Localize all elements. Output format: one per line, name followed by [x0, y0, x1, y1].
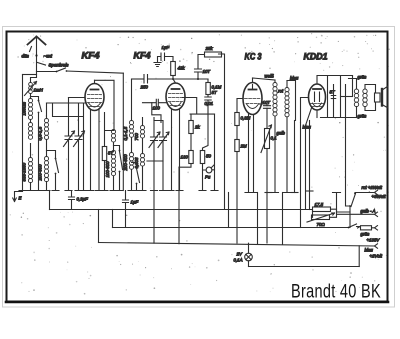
switch S gruen	[349, 224, 357, 228]
capacitor C 0,01	[205, 97, 211, 100]
terminal rot chevron	[375, 190, 378, 194]
tube V1 dome	[89, 103, 101, 107]
wire bus3 corner drop	[358, 246, 360, 267]
wire bus3 start drop	[98, 210, 100, 243]
wire rot terminal	[355, 192, 375, 194]
coil L3a	[44, 119, 48, 140]
svg-text:Pu: Pu	[205, 175, 211, 180]
tube V4 diode bars	[315, 92, 320, 102]
ground bar row mid	[101, 190, 167, 192]
bus1 ground return	[50, 209, 313, 211]
svg-text:200-600: 200-600	[123, 154, 128, 172]
wire right drop f	[294, 121, 296, 193]
resistor R 50	[200, 151, 204, 164]
antenna	[28, 37, 46, 45]
svg-text:+3Watt: +3Watt	[372, 194, 387, 199]
capacitor C 1uF	[123, 191, 129, 228]
wire V3 grid left	[237, 99, 243, 113]
resistor network R 17,5	[313, 207, 331, 212]
coil L4b	[111, 151, 115, 176]
IF transformer secondary	[285, 88, 289, 117]
tube V3 cathode bar	[249, 89, 257, 91]
svg-text:130: 130	[181, 155, 189, 160]
svg-text:100: 100	[153, 106, 161, 111]
svg-text:0,5-1,5: 0,5-1,5	[38, 126, 43, 140]
speaker driver	[375, 93, 381, 102]
wire output verticals	[328, 76, 353, 118]
wire R pair right to gelb	[330, 209, 375, 217]
wire S3 drop	[47, 151, 56, 191]
tube V3 dome	[247, 104, 259, 109]
svg-text:blau: blau	[365, 248, 374, 253]
tube V3 KC3 envelope	[243, 83, 262, 115]
wire V1 anode link	[95, 80, 115, 130]
svg-text:700: 700	[134, 133, 139, 141]
wire coil L3 stem	[46, 103, 48, 191]
wire switch drop to bus2	[349, 206, 351, 228]
wire R pair left link	[312, 210, 313, 218]
svg-text:1µF: 1µF	[162, 45, 170, 50]
R70 arrow	[307, 213, 335, 222]
wire V1 grid	[69, 97, 86, 99]
resistor network R 70 pot	[312, 215, 330, 220]
pot volume 0,1 gelb	[265, 129, 270, 149]
wire 25k left drop	[198, 55, 205, 69]
wire R5T stems	[105, 113, 114, 191]
wire antenna coil feed	[31, 72, 37, 83]
wire L5 stems	[131, 80, 133, 191]
svg-text:E: E	[19, 196, 22, 201]
tube V3 top lead	[252, 78, 254, 83]
svg-text:50: 50	[206, 154, 211, 159]
wire right drop h	[309, 121, 311, 210]
svg-text:rot +2Watt: rot +2Watt	[362, 185, 383, 190]
svg-text:2k: 2k	[194, 125, 200, 130]
wire C4 C5 bottom link	[147, 160, 163, 162]
svg-text:~ext: ~ext	[44, 54, 53, 59]
node H2/V2	[172, 78, 174, 80]
resistor R 130	[189, 151, 193, 164]
wire coil L2 stem	[30, 94, 32, 191]
resistor R 2M	[235, 140, 239, 152]
svg-text:333-1650: 333-1650	[22, 162, 27, 181]
svg-text:grün: grün	[358, 114, 367, 119]
coil L3b	[44, 157, 48, 182]
ground bars KC3 col	[199, 190, 218, 192]
switch S4	[120, 152, 123, 170]
wire V2 anode out	[183, 98, 215, 115]
bus2 HT return	[113, 227, 349, 229]
coil L6a	[140, 126, 144, 139]
capacitor C 10T	[195, 69, 202, 72]
wire mid drop c	[228, 193, 230, 228]
ground bar row left	[19, 190, 82, 192]
ground bars V3	[245, 192, 257, 194]
svg-text:1µF: 1µF	[131, 200, 139, 205]
terminal gelb chevron	[375, 212, 378, 216]
wire H2 continue	[148, 78, 208, 80]
svg-text:KDD1: KDD1	[304, 52, 328, 62]
variable capacitor C2	[74, 131, 85, 147]
wire C1 stems	[68, 98, 70, 191]
svg-text:42k: 42k	[178, 66, 186, 71]
svg-text:grün: grün	[358, 75, 367, 80]
tube V1 cathode bar	[91, 89, 99, 91]
tube V3 pins	[249, 114, 254, 192]
svg-text:KF4: KF4	[134, 51, 151, 61]
tube V3 inner stem	[252, 85, 254, 90]
variable inductor arrow	[25, 82, 37, 96]
capacitor C3 top with ground	[158, 53, 165, 62]
tube V1 KF4 envelope	[85, 84, 104, 111]
wire lamp top	[248, 243, 250, 253]
svg-text:100-300: 100-300	[105, 161, 110, 178]
tube V2 grid capacitor 100	[143, 99, 167, 106]
svg-text:grün: grün	[361, 232, 370, 237]
svg-text:250: 250	[140, 85, 149, 90]
svg-text:weiß: weiß	[265, 74, 275, 79]
capacitor C 0,2uF	[69, 191, 75, 210]
resistor R 0,3M	[235, 113, 239, 126]
variable inductor L1 body	[29, 82, 33, 93]
wire left loop vertical	[22, 75, 24, 191]
svg-text:0,01: 0,01	[205, 101, 214, 106]
svg-text:0,2µF: 0,2µF	[77, 197, 89, 202]
tube V4 dome	[313, 103, 322, 107]
wire right drop g	[300, 123, 302, 228]
wire V4 cathode drop	[306, 108, 312, 210]
wire C2 stems	[78, 103, 80, 191]
wire Pu drop	[203, 100, 215, 191]
switch S2	[39, 101, 42, 112]
coil L5a	[129, 121, 133, 138]
ground bars IFT	[272, 192, 291, 194]
wire mid drop a	[153, 191, 155, 244]
svg-text:+2Volt: +2Volt	[370, 254, 383, 259]
wire weiss link	[253, 78, 276, 80]
wire V4 grid left	[301, 98, 309, 123]
dropper resistor box gruen	[357, 227, 361, 229]
svg-text:blau: blau	[290, 76, 299, 81]
svg-text:Sperrkreis: Sperrkreis	[49, 63, 70, 68]
tube V2 dome	[170, 103, 181, 107]
tube V1 grids	[88, 95, 102, 107]
svg-text:0,1A: 0,1A	[234, 258, 243, 263]
tube V3 grid dashes	[245, 99, 261, 104]
IFT stems	[275, 80, 287, 193]
wire 25k right HT drop	[215, 54, 225, 210]
OT mid tap	[341, 96, 353, 98]
svg-text:10T: 10T	[203, 69, 211, 74]
svg-text:0,1M: 0,1M	[212, 85, 222, 90]
wire anode to C10T	[260, 104, 268, 106]
speaker cone	[383, 86, 388, 108]
wire bus2 start drop	[112, 210, 114, 228]
ground bars V2	[167, 190, 183, 192]
svg-text:0,1: 0,1	[271, 136, 278, 141]
coil L2c	[28, 158, 32, 183]
wire mid drop e	[282, 193, 284, 245]
dial lamp	[245, 253, 253, 261]
svg-text:5T: 5T	[330, 90, 335, 95]
OT secondary loop	[365, 85, 376, 111]
tube V4 cathode bar	[313, 88, 321, 90]
capacitor C250 series	[144, 75, 148, 84]
tube V4 bottom pin	[316, 110, 318, 118]
tube V2 pins	[172, 109, 180, 191]
variable capacitor C5	[158, 132, 169, 148]
node antenna junction	[35, 54, 37, 56]
output transformer primary	[354, 89, 358, 107]
wire C5 stems	[154, 121, 163, 191]
wire R2k chain	[179, 114, 191, 167]
capacitor C 5T out	[331, 96, 335, 99]
wire output stage top bus	[328, 75, 353, 77]
wire R01M stems	[207, 79, 209, 97]
antenna tap tick	[30, 47, 32, 52]
IF transformer primary	[273, 83, 277, 117]
wire V2 cathode jog	[152, 103, 161, 123]
output transformer secondary	[363, 89, 367, 107]
coil L2b	[28, 123, 32, 140]
svg-text:gelb: gelb	[277, 131, 286, 136]
svg-text:70Ω: 70Ω	[317, 222, 326, 227]
wire V4 top lead	[317, 76, 328, 85]
switch S3	[56, 159, 59, 173]
heater terminal bar	[333, 193, 351, 213]
wire left loop top	[23, 74, 37, 76]
svg-text:0,003: 0,003	[134, 157, 139, 169]
wire S4 drop	[114, 146, 120, 191]
wire R42k bottom	[172, 76, 174, 80]
pickup jack Pu	[206, 167, 212, 173]
wire H2 anode line	[132, 78, 144, 80]
wire S2 drop	[31, 97, 39, 191]
wire H1 drop	[122, 73, 124, 190]
switch S5	[137, 169, 140, 183]
resistor R 42k	[171, 62, 176, 76]
ground bars V1	[80, 190, 103, 192]
svg-text:2M: 2M	[240, 144, 247, 149]
svg-text:Brandt 40 BK: Brandt 40 BK	[291, 282, 381, 303]
svg-text:1mH: 1mH	[34, 88, 44, 93]
ground chassis C3	[154, 63, 161, 67]
switch S rot	[351, 194, 356, 207]
wire lamp bottom	[248, 261, 250, 267]
tube V1 cathode loop	[47, 103, 87, 191]
svg-text:1650m: 1650m	[22, 102, 27, 116]
svg-text:KC 3: KC 3	[245, 52, 262, 62]
svg-text:gelb - A: gelb - A	[361, 209, 376, 214]
tube V2 grids	[169, 94, 183, 106]
svg-text:KF4: KF4	[82, 51, 100, 61]
tube V1 top lead	[94, 80, 96, 83]
svg-text:200-600: 200-600	[38, 164, 43, 182]
tube V2 top lead	[173, 79, 176, 83]
svg-text:17,5: 17,5	[315, 202, 324, 207]
wire L6 stems	[142, 118, 144, 191]
speaker magnet bar	[381, 89, 383, 106]
wire bus1 start drop	[49, 191, 51, 210]
wire mid drop d	[257, 193, 259, 244]
svg-text:dün: dün	[22, 54, 30, 59]
svg-text:0,1-1,5: 0,1-1,5	[123, 126, 128, 140]
switch S-sperrkreis tick	[38, 63, 46, 66]
wire S5 drop	[132, 163, 137, 191]
coil L2a	[28, 99, 32, 120]
tube V2 KF4 envelope	[166, 83, 185, 110]
terminal blau chevron	[375, 244, 378, 248]
wire pot stems	[266, 108, 268, 243]
wire H1 long	[67, 71, 124, 73]
ground bar h	[306, 190, 313, 192]
resistor R 25k	[205, 52, 222, 57]
tube V4 KDD1 envelope	[309, 84, 326, 110]
variable capacitor C4	[149, 132, 160, 148]
OT primary bottom stem	[356, 107, 358, 118]
wire C4 stems	[153, 118, 155, 191]
coil L5b	[129, 153, 133, 170]
wire right drop j	[346, 118, 351, 207]
resistor R 2k	[189, 121, 193, 134]
svg-text:5T: 5T	[212, 90, 217, 95]
node H2 end	[197, 78, 199, 80]
wire mid drop b	[178, 167, 180, 244]
pot arrow	[261, 125, 272, 153]
resistor R 5T	[102, 147, 106, 161]
wire H1 to switch	[37, 71, 57, 73]
resistor R 0,1M	[206, 83, 210, 95]
svg-text:25k: 25k	[205, 46, 214, 51]
antenna lead wire	[36, 38, 38, 72]
wire IFT sec top	[287, 81, 296, 121]
variable capacitor C1	[64, 131, 75, 147]
tube V2 cathode bar	[172, 88, 180, 90]
tube V4 grid dashes	[311, 104, 324, 107]
OT primary stems gruen top	[349, 79, 357, 90]
wire R03M chain	[236, 126, 238, 244]
wire C3 to R42k	[165, 57, 174, 62]
coil L4a	[111, 130, 115, 143]
coil L6b	[140, 154, 144, 167]
svg-text:rot: rot	[278, 89, 284, 94]
svg-text:+135V: +135V	[367, 238, 381, 243]
wire C10T bottom	[197, 72, 199, 79]
switch S1	[57, 68, 66, 72]
ground bar f	[291, 192, 298, 194]
ground bar pot	[265, 192, 272, 194]
tube V1 pins	[91, 110, 100, 191]
capacitor C 10T out	[264, 106, 271, 109]
bus3 heater line	[99, 243, 375, 247]
bus4 dial lamp return	[249, 266, 360, 268]
ground E arrow	[13, 192, 23, 202]
terminal gruen chevron	[372, 226, 378, 230]
wire output bottom link	[321, 117, 357, 119]
wire L4 stems	[113, 143, 115, 191]
svg-text:2V: 2V	[236, 252, 243, 257]
svg-text:0,3M: 0,3M	[241, 116, 251, 121]
lamp cross	[246, 254, 251, 259]
